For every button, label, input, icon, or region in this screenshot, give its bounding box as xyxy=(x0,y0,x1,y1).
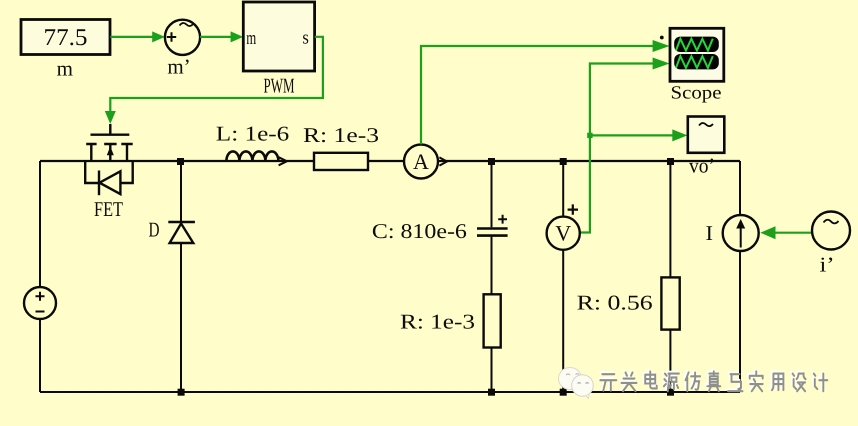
resistor R 1e-3 (cap branch) xyxy=(484,294,501,347)
wire green i' to I with arrow xyxy=(760,226,812,239)
wire green m to m' with arrow xyxy=(110,31,165,42)
svg-text:m: m xyxy=(57,57,73,81)
node dot: bottom rail at capacitor branch xyxy=(488,389,495,396)
watermark logo xyxy=(559,368,594,399)
inductor L xyxy=(226,151,278,161)
node dot: top rail at load resistor xyxy=(667,158,674,165)
svg-text:vo’: vo’ xyxy=(689,154,715,178)
node dot: bottom rail at load resistor xyxy=(667,389,674,396)
wire: voltmeter branch xyxy=(562,161,564,392)
svg-text:s: s xyxy=(302,28,309,49)
wire green m' to PWM with arrow xyxy=(200,31,243,42)
wire: left branch to Vdc source xyxy=(39,161,41,392)
resistor R 0.56 load xyxy=(661,277,679,329)
wire: top rail node xyxy=(40,160,740,162)
scope block xyxy=(670,28,724,81)
svg-text:m’: m’ xyxy=(167,55,190,79)
node dot: top rail at voltmeter xyxy=(560,158,567,165)
svg-text:i’: i’ xyxy=(820,253,835,277)
svg-text:A: A xyxy=(413,149,429,174)
svg-text:V: V xyxy=(555,221,571,246)
voltmeter V1 xyxy=(547,217,580,250)
svg-text:D: D xyxy=(149,218,160,242)
transistor FET (MOSFET with body diode) xyxy=(85,124,133,195)
svg-text:Scope: Scope xyxy=(671,84,722,104)
source i' xyxy=(812,212,850,250)
wire green ammeter to scope input 1 xyxy=(421,40,670,144)
capacitor C xyxy=(477,229,508,236)
node dot: top rail at capacitor xyxy=(488,158,495,165)
voltage source Vdc (left) xyxy=(24,287,56,319)
wire: diode D branch xyxy=(180,161,182,392)
current source I xyxy=(723,215,759,251)
svg-text:R: 0.56: R: 0.56 xyxy=(577,291,653,315)
node dot: FET output junction xyxy=(177,158,184,165)
wire: load resistor branch xyxy=(669,161,671,392)
plus mark for voltmeter xyxy=(568,204,578,214)
node dot: bottom rail at voltmeter branch xyxy=(560,389,567,396)
PWM block U1 xyxy=(243,2,314,71)
svg-text:I: I xyxy=(706,221,714,245)
constant block m value 77.5 xyxy=(21,20,110,55)
svg-text:m: m xyxy=(246,28,256,49)
node dot above scope input xyxy=(660,36,664,40)
voltage probe vo' xyxy=(688,117,725,153)
wire green voltmeter to scope input 2 and vo' probe xyxy=(580,58,688,233)
plus mark for capacitor xyxy=(498,215,507,224)
wire: capacitor branch xyxy=(491,161,493,392)
arrow after ammeter xyxy=(439,157,447,165)
ammeter A1 xyxy=(404,145,438,179)
resistor R series 1e-3 xyxy=(314,153,368,170)
diode D xyxy=(168,222,195,243)
svg-text:C: 810e-6: C: 810e-6 xyxy=(372,219,467,243)
source m' xyxy=(165,20,200,55)
wire green PWM s to FET gate with arrow xyxy=(105,37,323,124)
svg-text:R: 1e-3: R: 1e-3 xyxy=(400,310,475,334)
wire: bottom rail node xyxy=(40,391,740,393)
svg-text:77.5: 77.5 xyxy=(44,25,88,51)
node dot: bottom rail at diode xyxy=(178,389,185,396)
svg-text:L: 1e-6: L: 1e-6 xyxy=(216,122,289,146)
svg-text:R: 1e-3: R: 1e-3 xyxy=(303,123,379,147)
arrow after inductor xyxy=(279,157,287,165)
svg-text:FET: FET xyxy=(94,197,123,221)
wire: current source branch xyxy=(739,161,741,392)
svg-text:PWM: PWM xyxy=(264,74,295,98)
